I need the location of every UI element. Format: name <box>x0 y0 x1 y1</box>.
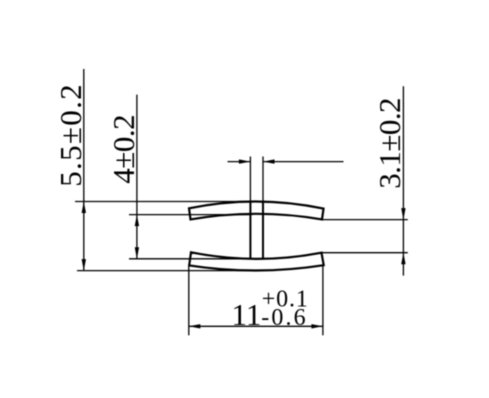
arrow 4 up <box>135 215 139 227</box>
dimension line web width right stub <box>263 161 344 163</box>
arrow 11 left <box>189 324 201 328</box>
svg-text:-0.6: -0.6 <box>261 305 307 331</box>
svg-text:5.5±0.2: 5.5±0.2 <box>53 83 88 187</box>
arrow 4 down <box>135 247 139 258</box>
extension line web-width right (above profile) <box>262 157 264 204</box>
profile web left wall <box>249 202 251 260</box>
arrow web width right <box>263 159 275 163</box>
arrow 3.1 down (above top ext line) <box>401 208 405 220</box>
arrow 5.5 down <box>82 259 86 271</box>
extension line 5.5 top (y=201.5) <box>75 201 265 203</box>
svg-text:4±0.2: 4±0.2 <box>106 115 141 184</box>
dimension line 11 horizontal <box>189 325 323 327</box>
dimension line 3.1 vertical <box>402 86 404 275</box>
arrow web width left <box>239 159 251 163</box>
dimension line web width left stub <box>228 161 251 163</box>
extension line 5.5 bottom (y=270.6) <box>77 270 256 272</box>
profile bottom flange outline <box>189 252 324 270</box>
dimension line 5.5 vertical <box>83 69 85 271</box>
extension line 4 top (y=214.6) <box>129 214 252 216</box>
extension line 11 right vertical <box>322 266 324 335</box>
arrow 5.5 up <box>82 202 86 214</box>
extension line 3.1 bottom (y=252.7) <box>322 252 408 254</box>
extension line 4 bottom (y=258.8) <box>129 258 250 260</box>
profile web right wall <box>262 202 264 260</box>
dimension line 4 vertical <box>136 95 138 259</box>
profile top flange outline <box>189 201 324 219</box>
svg-text:11: 11 <box>232 297 262 332</box>
svg-text:3.1±0.2: 3.1±0.2 <box>372 98 407 189</box>
arrow 11 right <box>311 324 323 328</box>
arrow 3.1 up (below bottom ext line) <box>401 253 405 265</box>
extension line 11 left vertical <box>188 266 190 335</box>
extension line web-width left (above profile) <box>249 157 251 204</box>
extension line 3.1 top (y=219.6) <box>322 219 408 221</box>
